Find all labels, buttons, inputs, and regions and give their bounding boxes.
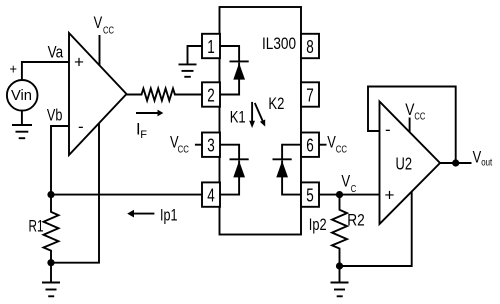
pin box 2 [202,82,220,106]
svg-text:2: 2 [207,85,215,105]
wire U2 negative supply [340,192,412,267]
svg-text:R1: R1 [29,218,44,236]
resistor R2 [332,195,347,266]
IF arrow [136,110,163,117]
svg-text:+: + [10,61,18,77]
svg-text:C: C [351,184,357,195]
pin box 8 [301,34,319,58]
op-amp U1 [69,33,127,155]
wire pin5 to U2 [319,194,380,196]
Vcc dash pin3 [195,144,202,146]
pin box 3 [202,133,220,157]
svg-text:Vin: Vin [11,87,32,104]
svg-text:F: F [140,129,147,141]
pin box 7 [301,82,319,106]
svg-text:R2: R2 [347,211,365,229]
ground R1 [42,263,60,297]
node dot R2 bottom [336,262,343,269]
resistor series [127,89,203,101]
op-amp U2 [380,102,441,225]
svg-text:K2: K2 [268,95,284,113]
node dot R1 bottom [47,259,54,266]
svg-text:3: 3 [207,136,215,156]
voltage source Vin [7,80,38,111]
svg-text:Ip2: Ip2 [309,216,327,234]
node dot Vc [336,191,343,198]
wire node Vb [51,126,69,195]
pin box 5 [301,182,319,206]
LED D1 [220,46,249,95]
K1 arrow [249,102,255,128]
svg-text:K1: K1 [230,108,246,126]
svg-text:CC: CC [414,112,425,123]
svg-text:CC: CC [336,144,347,155]
svg-text:V: V [405,101,414,119]
svg-text:6: 6 [306,136,314,156]
svg-text:out: out [481,158,492,169]
pin box 1 [202,34,220,58]
svg-text:CC: CC [103,26,114,37]
pin box 6 [301,133,319,157]
feedback loop U2 [368,87,456,164]
-Vcc dash pin6 [319,144,327,146]
photodiode PD1 [220,145,249,195]
svg-text:-: - [78,117,84,136]
wire pin4 row [51,194,202,196]
svg-text:5: 5 [306,185,314,205]
Ip1 arrow [127,210,154,218]
wire [22,62,69,80]
output wire Vout [440,162,472,164]
svg-text:V: V [473,148,482,166]
svg-text:U2: U2 [396,153,413,173]
node dot [47,191,54,198]
ground R2 [331,266,349,296]
K2 arrow [255,103,265,127]
wire U1 negative supply [51,123,99,263]
svg-text:+: + [74,53,84,72]
resistor R1 [44,195,59,263]
svg-text:Va: Va [48,44,64,62]
svg-text:7: 7 [306,85,314,105]
svg-text:V: V [94,14,103,32]
IC body IL300 [220,7,302,235]
Vcc stub U1 [99,35,101,65]
svg-text:V: V [327,133,336,151]
svg-text:4: 4 [207,185,215,205]
svg-text:8: 8 [306,37,314,57]
svg-text:-: - [385,120,391,139]
photodiode PD2 [273,145,302,195]
svg-text:Ip1: Ip1 [160,206,178,224]
svg-text:V: V [341,173,350,191]
svg-text:CC: CC [178,144,189,155]
ground [12,111,32,139]
pin box 4 [202,182,220,206]
svg-text:+: + [385,186,395,205]
svg-text:1: 1 [207,37,215,57]
Vcc stub U2 [409,118,411,133]
svg-text:IL300: IL300 [262,35,296,53]
node dot output [452,159,459,166]
ground at pin1 [179,46,203,77]
svg-text:Vb: Vb [47,106,63,124]
